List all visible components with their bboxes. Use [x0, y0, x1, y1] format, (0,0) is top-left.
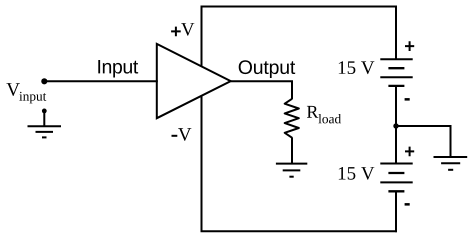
label - polarity battery V1	[405, 98, 410, 101]
node V_input ground-side terminal dot	[42, 109, 47, 114]
label V_input	[6, 83, 20, 96]
label +V	[171, 27, 181, 37]
label Input	[98, 60, 138, 77]
wire bottom rail	[201, 230, 398, 232]
label 15 V battery V2	[339, 167, 375, 180]
wire -V supply from op-amp bottom edge down to bottom rail	[201, 96, 203, 232]
wire V_input ground stem	[43, 111, 45, 126]
wire right drop from top rail to battery V1 positive plate	[395, 6, 397, 60]
node junction dot between batteries	[393, 123, 398, 128]
label Output	[239, 60, 295, 78]
op-amp U1 triangle	[157, 44, 231, 118]
label R_load	[307, 106, 318, 118]
ground symbol below R_load	[276, 164, 307, 177]
battery V1 plate 3 long	[380, 76, 412, 78]
battery V2 plate 2 short	[388, 172, 404, 174]
wire from bottom rail up to battery V2 negative plate	[395, 191, 397, 232]
wire between battery V1 negative plate and battery V2 positive plate	[395, 86, 397, 164]
wire from R_load bottom to load ground	[291, 137, 293, 163]
wire +V supply from op-amp top edge up to top rail	[201, 7, 203, 67]
resistor R_load zigzag	[285, 99, 299, 138]
label - polarity battery V2	[405, 203, 410, 206]
battery V1 plate 2 short	[388, 67, 404, 69]
wire output from op-amp tip right then down to R_load	[231, 81, 292, 99]
node V_input terminal dot	[41, 78, 47, 84]
label 15 V battery V1	[339, 61, 375, 74]
wire top rail	[201, 6, 398, 8]
ground symbol at battery junction (right)	[434, 157, 468, 170]
label -V	[172, 135, 178, 137]
label + polarity battery V1	[405, 41, 414, 51]
battery V1 plate 1 long (positive)	[380, 58, 412, 60]
label + polarity battery V2	[405, 147, 414, 157]
wire from junction to right ground	[396, 125, 451, 127]
battery V2 plate 4 short (negative)	[388, 190, 404, 192]
wire right ground stem	[450, 125, 452, 157]
battery V2 plate 3 long	[380, 181, 412, 183]
battery V2 plate 1 long (positive)	[380, 163, 412, 165]
battery V1 plate 4 short (negative)	[388, 85, 404, 87]
wire input from V_input terminal to op-amp	[44, 80, 158, 82]
ground symbol at V_input	[28, 126, 62, 137]
